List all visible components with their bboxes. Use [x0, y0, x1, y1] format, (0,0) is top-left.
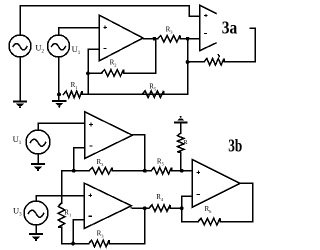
- resistor R4 row2: [149, 205, 170, 212]
- resistor R3 feedback A2: [89, 168, 112, 175]
- resistor R3 top: [158, 35, 181, 42]
- svg-text:R5: R5: [157, 158, 165, 167]
- ground U2: [14, 101, 26, 108]
- wire U2 to 3a + input: [20, 6, 200, 36]
- wire op-amp3 output: [131, 207, 149, 209]
- wire row1 left: [62, 170, 90, 172]
- svg-text:3a: 3a: [222, 18, 238, 38]
- junction A3 inverting node bottom: [71, 242, 75, 246]
- svg-text:R1: R1: [71, 81, 78, 90]
- svg-text:R3: R3: [97, 230, 105, 239]
- junction output A1: [153, 37, 157, 41]
- wire U3 to op-amp3 + input: [36, 196, 84, 201]
- resistor R1 top: [64, 91, 83, 98]
- resistor R7 vertical: [177, 133, 184, 152]
- wire U1b to ground: [37, 154, 39, 164]
- wire U1 to ground / R1 node: [58, 57, 60, 100]
- svg-text:U1: U1: [13, 134, 22, 146]
- wire resistor to + node: [180, 152, 182, 171]
- wire gnd-up to resistor: [180, 123, 182, 133]
- ground U1 bottom: [32, 164, 44, 171]
- svg-text:U1: U1: [72, 44, 81, 56]
- resistor R5 row1: [151, 168, 172, 175]
- wire row1 down to R1v: [61, 171, 63, 203]
- junction U1-R1: [57, 93, 61, 97]
- resistor R1 vertical: [58, 203, 65, 227]
- source U3: [24, 201, 48, 225]
- tick label: [218, 55, 219, 57]
- resistor R3 feedback A3: [89, 240, 109, 247]
- svg-text:3b: 3b: [228, 136, 242, 156]
- ground up symbol: [175, 116, 186, 123]
- op-amp A2: [85, 112, 132, 158]
- wire A3 output down to R3b: [144, 208, 146, 243]
- wire 3a output bracket: [229, 28, 255, 61]
- wire to R2: [88, 72, 102, 74]
- svg-text:R5: R5: [149, 83, 157, 92]
- ground U1 top: [53, 101, 65, 108]
- wire op-amp2 inverting branch: [74, 148, 85, 171]
- wire R3 to 3a inverting input: [180, 38, 200, 40]
- junction feedback tap: [186, 60, 190, 64]
- junction 3a inverting node: [186, 37, 190, 41]
- wire op-amp2 output down: [132, 135, 145, 171]
- wire row1 to + input: [172, 170, 193, 172]
- svg-text:U3: U3: [13, 206, 22, 218]
- wire row1 mid: [112, 170, 151, 172]
- junction A4 inverting node: [180, 206, 184, 210]
- source U1 bottom: [26, 130, 50, 154]
- resistor R5: [142, 91, 164, 98]
- wire R1 to inverting node: [82, 93, 88, 95]
- svg-text:R: R: [183, 139, 188, 146]
- op-amp A4 3b: [192, 159, 240, 207]
- op-amp A3: [84, 183, 131, 228]
- wire U1 to op-amp U1a + input: [59, 28, 100, 35]
- svg-text:R2: R2: [110, 59, 117, 68]
- wire U2 to ground: [19, 57, 21, 101]
- op-amp A1: [99, 15, 143, 61]
- wire U1b to op-amp2 + input: [38, 123, 85, 130]
- wire op-amp1 output: [143, 38, 158, 40]
- junction R2 tap: [86, 71, 90, 75]
- junction A2 inverting node: [72, 169, 76, 173]
- svg-text:R3: R3: [166, 25, 174, 34]
- junction + node: [180, 169, 184, 173]
- wire R6 to A4 output: [220, 183, 253, 221]
- wire op-amp1 inverting input branch: [88, 49, 99, 94]
- wire bottom row: [73, 243, 89, 245]
- svg-text:R6: R6: [205, 205, 213, 214]
- svg-text:R4: R4: [156, 193, 164, 202]
- junction A3 output node: [143, 206, 147, 210]
- wire R5 to R1 node: [88, 93, 142, 95]
- svg-text:R1: R1: [64, 208, 71, 217]
- resistor R2: [102, 70, 124, 77]
- svg-text:R3: R3: [97, 158, 105, 167]
- wire R3b to output: [109, 243, 145, 245]
- wire inverting node down to R5: [142, 39, 188, 94]
- wire feedback to bracket: [224, 61, 229, 63]
- wire op-amp3 inverting branch: [73, 220, 84, 244]
- feedback resistor 3a: [204, 59, 224, 66]
- svg-text:U2: U2: [35, 42, 44, 54]
- wire U3 to ground: [35, 225, 37, 234]
- source U1 top: [48, 35, 70, 57]
- wire R1v to bottom row: [62, 227, 74, 244]
- junction A2 output node: [143, 169, 147, 173]
- wire R2 to op-amp1 output: [124, 39, 156, 73]
- op-amp 3a (clipped): [200, 5, 216, 50]
- wire inverting node to R6: [182, 208, 198, 221]
- wire R4 to inverting node: [170, 207, 182, 209]
- ground U3: [30, 234, 42, 241]
- wire A4 inverting branch: [182, 196, 193, 208]
- resistor R6: [198, 218, 220, 225]
- source U2: [9, 35, 31, 57]
- wire to feedback resistor: [188, 61, 204, 63]
